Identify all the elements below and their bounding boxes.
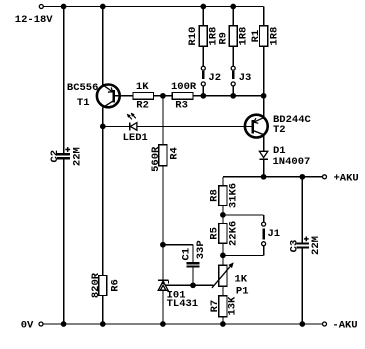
wire: LED to T2 base [137,125,252,127]
wire: LED node down through R6 to 0V [102,126,104,275]
node: +AKU output terminal [323,175,327,179]
wire: R6 to 0V rail [102,296,104,325]
wire: C2 column lower segment [63,159,65,324]
junction on top rail at C2 column [61,4,67,10]
junction on top rail at T1 column [100,4,106,10]
wire: J3 to R3 output node [232,86,234,96]
wire: C3 column upper [301,177,303,243]
wire: +AKU down to R8 [222,177,224,186]
LED LED1 [130,122,137,130]
svg-text:13K: 13K [227,296,239,316]
svg-text:BC556: BC556 [67,82,99,94]
C2 polarity + [65,149,70,151]
svg-text:1R8: 1R8 [268,27,280,46]
svg-text:R10: R10 [187,27,199,46]
wire: T1 collector down to LED node [102,108,104,127]
svg-text:22M: 22M [72,147,84,166]
junction: R8/R5/J1 node [220,212,226,218]
wire: R7 to 0V rail [222,317,224,324]
wire: +AKU rail [223,176,323,178]
junction at R1 bottom / T2 emitter [261,93,267,99]
svg-text:820R: 820R [90,272,102,298]
wire: C1 top branch [163,244,193,246]
wire: R3 to T2 emitter column [193,95,264,97]
wire: R1 node to T2 emitter [263,96,265,118]
junction 0V rail at R6 [100,321,106,327]
wire: C1 to reference line [192,268,194,286]
svg-text:22M: 22M [310,236,322,255]
resistor R5 [219,224,227,244]
diode D1 1N4007 [259,151,267,159]
resistor R4 [159,145,167,166]
wire: J1 bottom branch [263,246,265,256]
node: 0V terminal [39,322,43,326]
wire: R1 to T2 emitter node [263,46,265,96]
wire: TL431 reference to P1 wiper [165,284,213,286]
svg-text:J1: J1 [268,228,281,240]
LED1 light arrows [127,113,136,120]
svg-text:560R: 560R [150,146,162,172]
wire: 0V / -AKU bottom rail [43,323,322,325]
junction on top rail at R10 [200,4,206,10]
wire: D1 cathode to +AKU rail [263,160,265,177]
wire: R2 to node [154,95,173,97]
wire: LED anode side [103,125,130,127]
wire: C3 column lower [301,249,303,325]
junction +AKU at D1 [261,174,267,180]
svg-text:22K6: 22K6 [227,221,239,246]
junction at J3 bottom [230,93,236,99]
svg-text:R8: R8 [208,189,220,202]
wire: top +12V rail [43,6,263,8]
junction: T1 collector / LED node [100,124,106,130]
transistor T1 BC556 PNP [97,85,120,108]
wire: J1 top branch [223,214,264,216]
svg-text:1K: 1K [235,273,248,285]
resistor R8 [219,186,227,206]
wire: C2 column upper segment [63,7,65,154]
wire: T1 column from rail to transistor [102,7,104,85]
svg-text:R6: R6 [110,279,122,292]
svg-text:33P: 33P [195,240,207,259]
svg-text:TL431: TL431 [167,298,199,310]
svg-text:31K6: 31K6 [227,183,239,208]
wire: TL431 anode to 0V rail [162,290,164,324]
junction: R4/C1/TL431 node [160,242,166,248]
junction: R2/R3/R4 node [160,93,166,99]
junction at J2 bottom [200,93,206,99]
wire: R4 to TL431 cathode [162,166,164,280]
capacitor C3 [296,242,308,244]
svg-text:100R: 100R [171,81,197,93]
svg-text:-AKU: -AKU [332,320,357,332]
svg-text:+AKU: +AKU [334,173,359,185]
svg-text:R3: R3 [175,100,188,112]
wire: T1 base to R2 [115,95,133,97]
junction: C1/ref/wiper node [190,282,196,288]
wire: P1 to R7 [222,286,224,296]
resistor R3 [172,93,193,100]
wire: R5 to P1 node [222,243,224,265]
svg-text:0V: 0V [21,320,34,332]
svg-text:J2: J2 [208,72,221,84]
junction 0V rail at C3 [299,321,305,327]
shunt regulator I01 TL431 [158,280,169,290]
resistor R7 [219,296,227,317]
svg-text:R2: R2 [136,100,149,112]
junction 0V rail at C2 [61,321,67,327]
resistor R1 [263,7,265,26]
wire: R8 to R5 [222,205,224,223]
potentiometer P1 [212,263,234,288]
capacitor C1 [187,262,200,264]
svg-text:R1: R1 [250,30,262,43]
node: 12-18V input terminal [39,5,43,9]
wire: J2 to R3 output node [202,86,204,96]
svg-text:P1: P1 [236,285,249,297]
junction 0V rail at R7 [220,321,226,327]
node: -AKU output terminal [323,322,327,326]
junction +AKU at C3 [299,174,305,180]
svg-text:LED1: LED1 [123,132,148,144]
capacitor C2 [57,153,70,155]
wire: R9 to J3 [232,46,234,66]
svg-text:R4: R4 [168,147,180,160]
jumper J2 [201,66,205,86]
wire: T2 collector to D1 [263,135,265,152]
resistor R10 [202,7,204,26]
C3 polarity + [304,238,309,240]
jumper J3 [231,66,235,86]
resistor R6 [99,276,107,296]
svg-text:R9: R9 [218,32,230,45]
junction: R5/P1/J1 node [220,253,226,259]
svg-text:1R8: 1R8 [237,27,249,46]
svg-text:T1: T1 [77,97,90,109]
svg-text:1K: 1K [136,81,149,93]
junction 0V rail at TL431 [160,321,166,327]
resistor R9 [232,7,234,26]
svg-text:C1: C1 [180,248,192,261]
transistor T2 BD244C PNP [245,115,268,138]
junction on top rail at R9 [230,4,236,10]
svg-text:R5: R5 [208,227,220,240]
svg-text:12-18V: 12-18V [15,14,54,26]
resistor R2 [133,93,154,100]
svg-text:1N4007: 1N4007 [273,156,311,168]
jumper J1 [262,222,266,246]
svg-text:T2: T2 [273,124,286,136]
svg-text:J3: J3 [239,72,252,84]
wire: R4 column from R2/R3 node [162,96,164,145]
wire: R10 to J2 [202,46,204,66]
svg-text:R7: R7 [209,300,221,313]
svg-text:C2: C2 [49,150,61,163]
svg-text:C3: C3 [289,240,301,253]
